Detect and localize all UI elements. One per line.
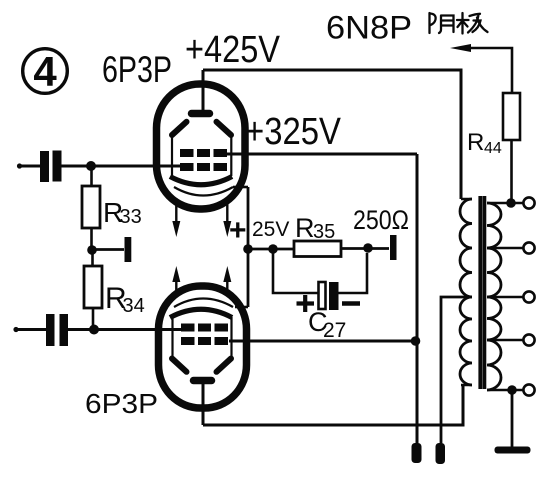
node: tap5 to ground <box>507 385 517 395</box>
wire: transformer primary centre tap <box>441 297 472 443</box>
capacitor C input top <box>40 151 62 183</box>
arrowhead pointing left <box>450 44 471 52</box>
svg-text:35: 35 <box>313 221 335 243</box>
envelope <box>159 286 247 408</box>
svg-text:34: 34 <box>123 295 145 317</box>
wire: secondary to ground <box>511 390 514 447</box>
secondary tap 3 wire <box>487 296 523 299</box>
wire: cathode node to R35 <box>248 248 294 251</box>
terminal circle tap1 <box>523 197 534 208</box>
svg-text:+: + <box>229 214 247 247</box>
heater arc <box>174 299 233 308</box>
transformer T1 secondary winding <box>487 203 501 390</box>
node: cathode junction <box>243 244 253 254</box>
svg-text:33: 33 <box>120 206 142 228</box>
label +25V <box>229 214 289 247</box>
wire: V2 screen grid to +325V rail <box>229 340 417 343</box>
vacuum tube V2 6P3P (bottom, inverted) <box>159 286 247 408</box>
svg-text:+425V: +425V <box>185 29 281 71</box>
svg-text:6P3P: 6P3P <box>85 388 158 419</box>
cathode arc <box>170 177 232 185</box>
svg-text:R: R <box>467 129 484 156</box>
wire: bottom plate rail to transformer primary bottom <box>203 385 463 425</box>
secondary tap 2 wire <box>487 247 523 250</box>
heater pin lead right (V2) with arrow <box>223 266 231 294</box>
beam plate right <box>217 122 232 135</box>
heater arc <box>174 187 233 196</box>
label R33 <box>103 197 142 228</box>
node: R35/C27 right junction <box>363 243 373 253</box>
beam plate left <box>172 122 187 135</box>
input terminal blob <box>13 327 18 332</box>
node: C27 branch junction <box>268 244 278 254</box>
heater pin lead left (V1) with arrow <box>172 198 180 237</box>
wire: arrow to 6N8P cathode (filament supply) <box>466 48 512 93</box>
svg-text:27: 27 <box>323 319 346 342</box>
svg-text:250Ω: 250Ω <box>353 205 409 235</box>
grid row 2 (screen grid) <box>181 337 228 345</box>
wire: R44 bottom lead <box>510 140 513 203</box>
svg-text:4: 4 <box>33 48 57 95</box>
label C27 <box>308 307 346 342</box>
svg-text:25V: 25V <box>252 218 289 241</box>
beam plate right <box>217 359 232 372</box>
wire: input coupling to V2 control grid <box>16 328 181 331</box>
plug terminal (B+ screen) <box>412 443 422 463</box>
svg-text:44: 44 <box>484 140 502 157</box>
polarity plus sign <box>297 295 315 312</box>
wire: top tube plate lead to +425V rail <box>202 70 205 113</box>
label R34 <box>105 282 145 317</box>
node: junction R33/R34/ground <box>87 245 97 255</box>
wire: V2 plate lead <box>202 384 205 425</box>
node: R44 to tap1 <box>506 198 516 208</box>
transformer T1 primary winding <box>461 199 472 385</box>
node: junction grid2/R34 <box>89 325 99 335</box>
plate (anode) bar <box>192 110 210 118</box>
wire: +325V rail down right side <box>416 154 419 443</box>
ground bar (chassis) <box>390 235 397 260</box>
svg-text:R: R <box>295 213 315 243</box>
plate (anode) bar <box>194 377 212 385</box>
wire: +425V top rail to transformer primary top <box>203 70 461 199</box>
label cathode (Chinese 阴极) <box>430 13 488 34</box>
resistor R33 <box>90 166 93 186</box>
svg-text:+325V: +325V <box>245 111 342 153</box>
figure number badge 4 <box>23 48 68 95</box>
C27 positive plate <box>319 282 326 309</box>
wire: R35 to ground <box>341 247 389 250</box>
vacuum tube V1 6P3P (top) <box>157 84 246 209</box>
ground bar (chassis) bottom right <box>495 447 531 454</box>
heater pin lead left (V2) with arrow <box>172 266 180 294</box>
cathode arc <box>170 309 232 317</box>
beam plate left <box>172 359 187 372</box>
envelope <box>157 84 246 209</box>
wire: input coupling to V1 control grid <box>20 165 181 168</box>
transformer core <box>480 196 484 389</box>
secondary tap 1 wire <box>487 202 523 205</box>
label R35 <box>295 213 335 243</box>
grid row 1 (screen grid) <box>180 149 227 157</box>
beam plate side rails <box>172 136 231 176</box>
svg-text:6N8P: 6N8P <box>326 10 412 46</box>
resistor R35 <box>294 241 341 257</box>
node: screen rail junction <box>411 336 421 346</box>
resistor R34 <box>91 250 94 266</box>
label R44 <box>467 129 502 157</box>
ground bar (chassis) <box>125 237 132 262</box>
terminal circle tap2 <box>523 242 534 253</box>
secondary tap 4 wire <box>487 339 523 342</box>
wire: V1 screen grid to +325V rail <box>227 153 417 156</box>
capacitor C27 (electrolytic) branch <box>273 249 318 293</box>
wire: V2 cathode tap <box>235 306 248 309</box>
input terminal blob <box>17 163 22 168</box>
plug terminal (B+ centre tap) <box>436 443 446 464</box>
terminal circle tap4 <box>523 334 534 345</box>
beam plate side rails <box>173 317 232 357</box>
node: junction grid1/R33 <box>86 161 96 171</box>
capacitor C input bottom <box>46 314 68 346</box>
terminal circle tap5 <box>523 384 534 395</box>
grid row 1 (control grid) <box>181 324 228 332</box>
secondary tap 5 wire <box>487 389 523 392</box>
svg-text:6P3P: 6P3P <box>102 49 172 90</box>
heater pin lead right (V1) with arrow <box>223 200 231 237</box>
grid row 2 (control grid) <box>180 163 227 171</box>
wire: V1 cathode tap <box>233 186 248 189</box>
resistor R44 <box>503 93 520 140</box>
wire: cathode rail between tubes <box>247 187 250 307</box>
terminal circle tap3 <box>523 291 534 302</box>
C27 negative plate <box>329 282 339 310</box>
polarity minus sign <box>342 301 360 306</box>
wire to chassis ground stub <box>92 248 124 251</box>
